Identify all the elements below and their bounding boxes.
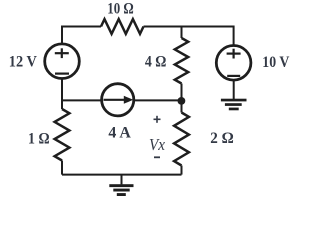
wire middle: left rail to current source bbox=[62, 99, 102, 101]
svg-text:2 Ω: 2 Ω bbox=[210, 130, 234, 147]
voltage source V2 10V (circle) bbox=[216, 46, 251, 81]
minus sign of Vx bbox=[154, 156, 160, 158]
svg-text:Vx: Vx bbox=[149, 135, 165, 154]
minus sign inside 12V source bbox=[55, 72, 69, 74]
plus sign inside 12V source bbox=[55, 48, 69, 58]
plus sign inside 10V source bbox=[227, 49, 241, 59]
resistor R 4ohm (vertical zigzag, middle branch) bbox=[175, 38, 188, 84]
wire: top rail T-branch down to 4ohm resistor bbox=[181, 27, 183, 39]
wire: 4ohm bottom to node bbox=[181, 84, 183, 101]
wire left rail: 12V bottom down to 1ohm top (through middle-wire junction) bbox=[61, 79, 63, 110]
voltage source V1 12V (circle) bbox=[45, 44, 80, 79]
svg-text:10 Ω: 10 Ω bbox=[107, 1, 134, 18]
arrow inside current source bbox=[104, 99, 127, 101]
wire middle: current source to node bbox=[134, 99, 182, 101]
plus sign of Vx bbox=[154, 116, 161, 123]
wire top-right: from 10ohm to corner and down to 10V source top bbox=[144, 27, 234, 46]
svg-text:1 Ω: 1 Ω bbox=[28, 130, 50, 147]
svg-text:10 V: 10 V bbox=[262, 54, 289, 71]
ground symbol (bottom rail) bbox=[121, 175, 123, 185]
wire: node down to 2ohm top bbox=[181, 101, 183, 113]
current source I1 4A (circle) bbox=[102, 84, 134, 116]
ground symbol (under 10V source) bbox=[221, 99, 247, 111]
wire: 2ohm bottom to bottom rail bbox=[181, 166, 183, 175]
resistor R 10ohm (horizontal zigzag, top rail) bbox=[101, 19, 144, 34]
svg-text:12 V: 12 V bbox=[9, 54, 37, 71]
minus sign inside 10V source bbox=[227, 75, 240, 77]
resistor R 1ohm (vertical zigzag, left rail) bbox=[55, 109, 70, 161]
wire: 10V bottom to ground bbox=[233, 80, 235, 99]
svg-text:4 A: 4 A bbox=[108, 124, 131, 141]
node junction dot bbox=[178, 97, 186, 105]
wire: 1ohm bottom to bottom-left corner bbox=[61, 161, 63, 175]
svg-text:4 Ω: 4 Ω bbox=[145, 54, 167, 71]
wire bottom rail bbox=[62, 174, 182, 176]
resistor R 2ohm (vertical zigzag, right branch) bbox=[174, 113, 189, 166]
wire top-left: from 12V source top up to top rail bbox=[62, 27, 101, 44]
